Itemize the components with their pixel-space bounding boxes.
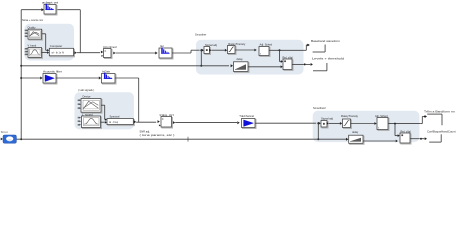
wire int2 out xyxy=(388,117,424,124)
label relay2 xyxy=(401,130,412,134)
label Voiced xyxy=(28,43,37,47)
label in gain xyxy=(102,70,111,74)
block ramp1 xyxy=(234,62,250,73)
svg-text:Noise + source mix: Noise + source mix xyxy=(22,18,44,22)
node wire B junction xyxy=(317,138,319,140)
arrow into ingain xyxy=(99,77,101,80)
node branch to feedback xyxy=(200,49,202,51)
svg-text:InGain: InGain xyxy=(102,70,111,74)
wire int1 out xyxy=(269,45,308,50)
wire iter gain out with step xyxy=(172,50,200,53)
svg-text:N in.n: N in.n xyxy=(1,130,9,134)
arrow top output 2 xyxy=(311,63,313,66)
block iter gain xyxy=(159,48,173,60)
panel: top processing group xyxy=(196,40,304,75)
label panel1 title xyxy=(22,18,44,22)
svg-text:Spectral: Spectral xyxy=(110,114,120,118)
port chevron conditioner port2 xyxy=(101,55,103,57)
arrow compare2 output xyxy=(134,120,136,123)
label Device xyxy=(83,94,91,98)
svg-text:Baseband waveform: Baseband waveform xyxy=(311,39,341,43)
wire B long horizontal xyxy=(16,138,346,140)
wire conditioner to iter gain xyxy=(116,52,156,54)
block compare2 xyxy=(107,119,134,126)
arrow into channel gain xyxy=(237,121,239,124)
label integrator 2 xyxy=(375,114,388,118)
tick on wire B xyxy=(187,137,189,142)
label integrator 1 xyxy=(260,43,273,47)
svg-text:( tune params, etc ): ( tune params, etc ) xyxy=(140,133,175,137)
wire relay2 out cont xyxy=(422,138,425,140)
label levels threshold xyxy=(312,57,345,61)
svg-text:SNR adj,: SNR adj, xyxy=(140,129,151,133)
wire feedback top horizontal xyxy=(21,9,42,11)
block channel gain xyxy=(242,119,257,129)
panel: bottom processing group xyxy=(313,111,420,142)
wire channel to sum2 xyxy=(255,122,316,124)
svg-text:RateyTransty: RateyTransty xyxy=(341,114,359,118)
block relay2 xyxy=(400,133,411,144)
node left bus at badge wire xyxy=(20,138,22,140)
label bottom output2 xyxy=(427,129,456,133)
svg-text:Comparer: Comparer xyxy=(50,44,63,48)
svg-text:Iter: Iter xyxy=(160,44,164,48)
label panel4 title xyxy=(313,106,326,110)
arrow into ratelimiter2 xyxy=(340,122,342,125)
wire relay1 out cont xyxy=(306,63,311,65)
node relay2 out xyxy=(420,138,422,140)
arrow compare output xyxy=(74,51,76,54)
label channel gain xyxy=(239,114,254,118)
arrow into integrator1 xyxy=(254,49,256,52)
node int1 branch xyxy=(279,49,281,51)
block in equalizer xyxy=(161,117,173,129)
wire relay2 out xyxy=(410,138,420,140)
wire compare to conditioner xyxy=(77,52,100,54)
svg-text:Trflm a Bandform rm: Trflm a Bandform rm xyxy=(424,109,456,113)
wire ingain elbow down xyxy=(115,78,139,122)
label snr note line1 xyxy=(140,129,151,133)
label panel3 title xyxy=(78,88,94,92)
block signal builder C xyxy=(78,99,102,114)
wire compare2 to ineq xyxy=(136,121,156,123)
svg-text:delay: delay xyxy=(237,57,244,61)
wire left vertical bus xyxy=(20,10,22,140)
wire bracket bottom output1 xyxy=(427,114,442,125)
label acoustic gain xyxy=(43,70,62,74)
wire ramp1 to relay1 xyxy=(248,66,281,68)
block badge source xyxy=(3,135,16,143)
svg-text:wl - th 1e %: wl - th 1e % xyxy=(52,51,65,54)
panel: bottom source group xyxy=(75,92,134,129)
wire SBd output xyxy=(101,121,105,123)
svg-text:Signal adj: Signal adj xyxy=(205,43,217,47)
block compare (panel1) xyxy=(49,48,74,57)
label sum1 xyxy=(205,43,217,47)
wire sum1 to ratelimiter xyxy=(211,49,225,51)
wire top block output xyxy=(56,10,80,53)
svg-text:Adj. Sched: Adj. Sched xyxy=(260,43,273,47)
block in gain xyxy=(102,73,117,84)
wire rl2 to int2 xyxy=(351,123,375,125)
node int2 branch xyxy=(394,123,396,125)
port chevron ineq port2 xyxy=(159,124,161,126)
block rate limiter 2 xyxy=(343,119,352,129)
arrow into relay2 port1 xyxy=(398,134,400,137)
block integrator 2 xyxy=(377,118,389,131)
wire bracket top output1 xyxy=(313,45,326,53)
wire SBa elbow xyxy=(42,34,48,51)
label Quality xyxy=(28,26,37,30)
label compare xyxy=(50,44,63,48)
block signal builder D xyxy=(78,116,102,129)
svg-text:wl - Freq: wl - Freq xyxy=(109,121,119,124)
svg-text:ConfBoqusHandCount: ConfBoqusHandCount xyxy=(427,129,456,133)
label rate limiter 1 xyxy=(228,42,246,46)
label ramp2 xyxy=(352,130,359,134)
arrow into relay2 port2 xyxy=(396,140,398,143)
label baseband waveform xyxy=(311,39,341,43)
block integrator 1 xyxy=(259,47,270,57)
label compare2 xyxy=(110,114,120,118)
wire int1 branch down xyxy=(280,50,281,61)
node sum2 branch xyxy=(317,122,319,124)
arrow into top adapt block xyxy=(41,8,44,11)
label rate limiter 2 xyxy=(341,114,359,118)
block acoustic gain xyxy=(43,74,57,85)
arrow into ramp1 xyxy=(231,64,233,67)
block adapt filter (top) xyxy=(44,4,57,15)
arrow bottom output 1 xyxy=(424,115,427,118)
svg-text:RateyTransty: RateyTransty xyxy=(228,42,246,46)
wire A long horizontal xyxy=(21,65,229,67)
svg-text:Adj. Sched: Adj. Sched xyxy=(375,114,388,118)
block relay1 xyxy=(283,59,293,71)
svg-text:InConfmed: InConfmed xyxy=(103,45,117,49)
arrow into acoustic gain xyxy=(40,77,42,80)
arrow SBc into compare2 xyxy=(105,118,107,120)
label iter gain xyxy=(160,44,164,48)
arrow ineq out xyxy=(173,121,175,124)
svg-text:( Lab signals ): ( Lab signals ) xyxy=(78,88,94,92)
label in equalizer xyxy=(160,113,175,117)
wire acoustic to ingain xyxy=(56,77,99,79)
label snr note line2 xyxy=(140,133,175,137)
block signal builder B xyxy=(25,48,43,59)
wire ramp2 to relay2 xyxy=(363,140,396,142)
node left bus at long wire A xyxy=(20,65,22,67)
svg-text:adapt wt: adapt wt xyxy=(42,2,59,5)
node relay1 out xyxy=(304,63,306,65)
wire branch down to wire A xyxy=(200,50,202,66)
label ramp1 xyxy=(237,57,244,61)
svg-text:Signal adj: Signal adj xyxy=(321,117,333,121)
svg-text:Device: Device xyxy=(83,94,91,98)
node left bus at bottom input xyxy=(20,77,22,79)
label lab source xyxy=(82,112,93,116)
arrow top output 1 xyxy=(307,44,310,47)
wire rl1 to integrator xyxy=(235,49,254,51)
arrow into integrator2 xyxy=(374,122,376,125)
label badge xyxy=(1,130,9,134)
svg-text:Rel. yVal.: Rel. yVal. xyxy=(283,55,294,59)
svg-text:InEq. ctrl: InEq. ctrl xyxy=(160,113,175,117)
wire int2 branch down xyxy=(395,124,398,136)
wire sum2 to rl2 xyxy=(329,122,340,124)
arrow sum2 out xyxy=(327,122,329,125)
arrow into conditioner port1 xyxy=(101,51,103,54)
arrow into ramp2 xyxy=(346,138,348,141)
block rate limiter 1 xyxy=(228,46,237,55)
wire relay1 out xyxy=(292,63,304,65)
wire bracket top output2 xyxy=(313,63,327,71)
node wire A junction xyxy=(200,65,202,67)
block sum2 xyxy=(321,121,328,129)
wire SBb output xyxy=(42,51,48,53)
label relay1 xyxy=(283,55,294,59)
wire bracket bottom output2 xyxy=(429,134,441,142)
arrow SBb into compare xyxy=(47,51,49,53)
arrow SBd into compare2 xyxy=(105,121,107,123)
wire SBc elbow xyxy=(101,105,105,119)
arrow into relay1 port2 xyxy=(281,65,283,68)
block ramp2 xyxy=(349,135,364,144)
arrow into iter gain xyxy=(155,52,157,55)
label input conditioner xyxy=(103,45,117,49)
arrow into relay1 port1 xyxy=(281,60,283,63)
svg-text:V. band: V. band xyxy=(28,43,37,47)
arrow into sum1 xyxy=(202,49,204,52)
wire ineq to channel xyxy=(175,122,237,124)
label adapt filter xyxy=(42,2,59,5)
svg-text:Smoother2: Smoother2 xyxy=(313,106,326,110)
arrow SBa into compare xyxy=(47,49,49,51)
arrow into sum2 xyxy=(319,122,321,125)
block signal builder A xyxy=(25,29,43,40)
block input conditioner xyxy=(104,49,113,59)
svg-text:Acoustic filter: Acoustic filter xyxy=(43,70,62,74)
label panel2 title xyxy=(195,32,206,36)
svg-text:TdeChannel: TdeChannel xyxy=(239,114,254,118)
arrow into ineq port1 xyxy=(158,120,160,123)
arrow sum1 out xyxy=(209,49,211,52)
arrow into ratelimiter1 xyxy=(225,49,227,52)
wire into acoustic gain xyxy=(21,77,40,79)
svg-text:Smoother: Smoother xyxy=(195,32,206,36)
wire branch down to wire B xyxy=(317,123,319,139)
panel: Noise sources group (top left) xyxy=(25,24,75,61)
arrow conditioner out xyxy=(113,52,115,55)
arrow into badge xyxy=(1,138,3,141)
svg-text:Rel. yVal.: Rel. yVal. xyxy=(401,130,412,134)
svg-text:Levels + threshold: Levels + threshold xyxy=(312,57,345,61)
arrow bottom output 2 xyxy=(425,137,427,140)
label sum2 xyxy=(321,117,333,121)
block sum1 xyxy=(204,47,211,55)
svg-text:delay: delay xyxy=(352,130,359,134)
label bottom output1 xyxy=(424,109,456,113)
